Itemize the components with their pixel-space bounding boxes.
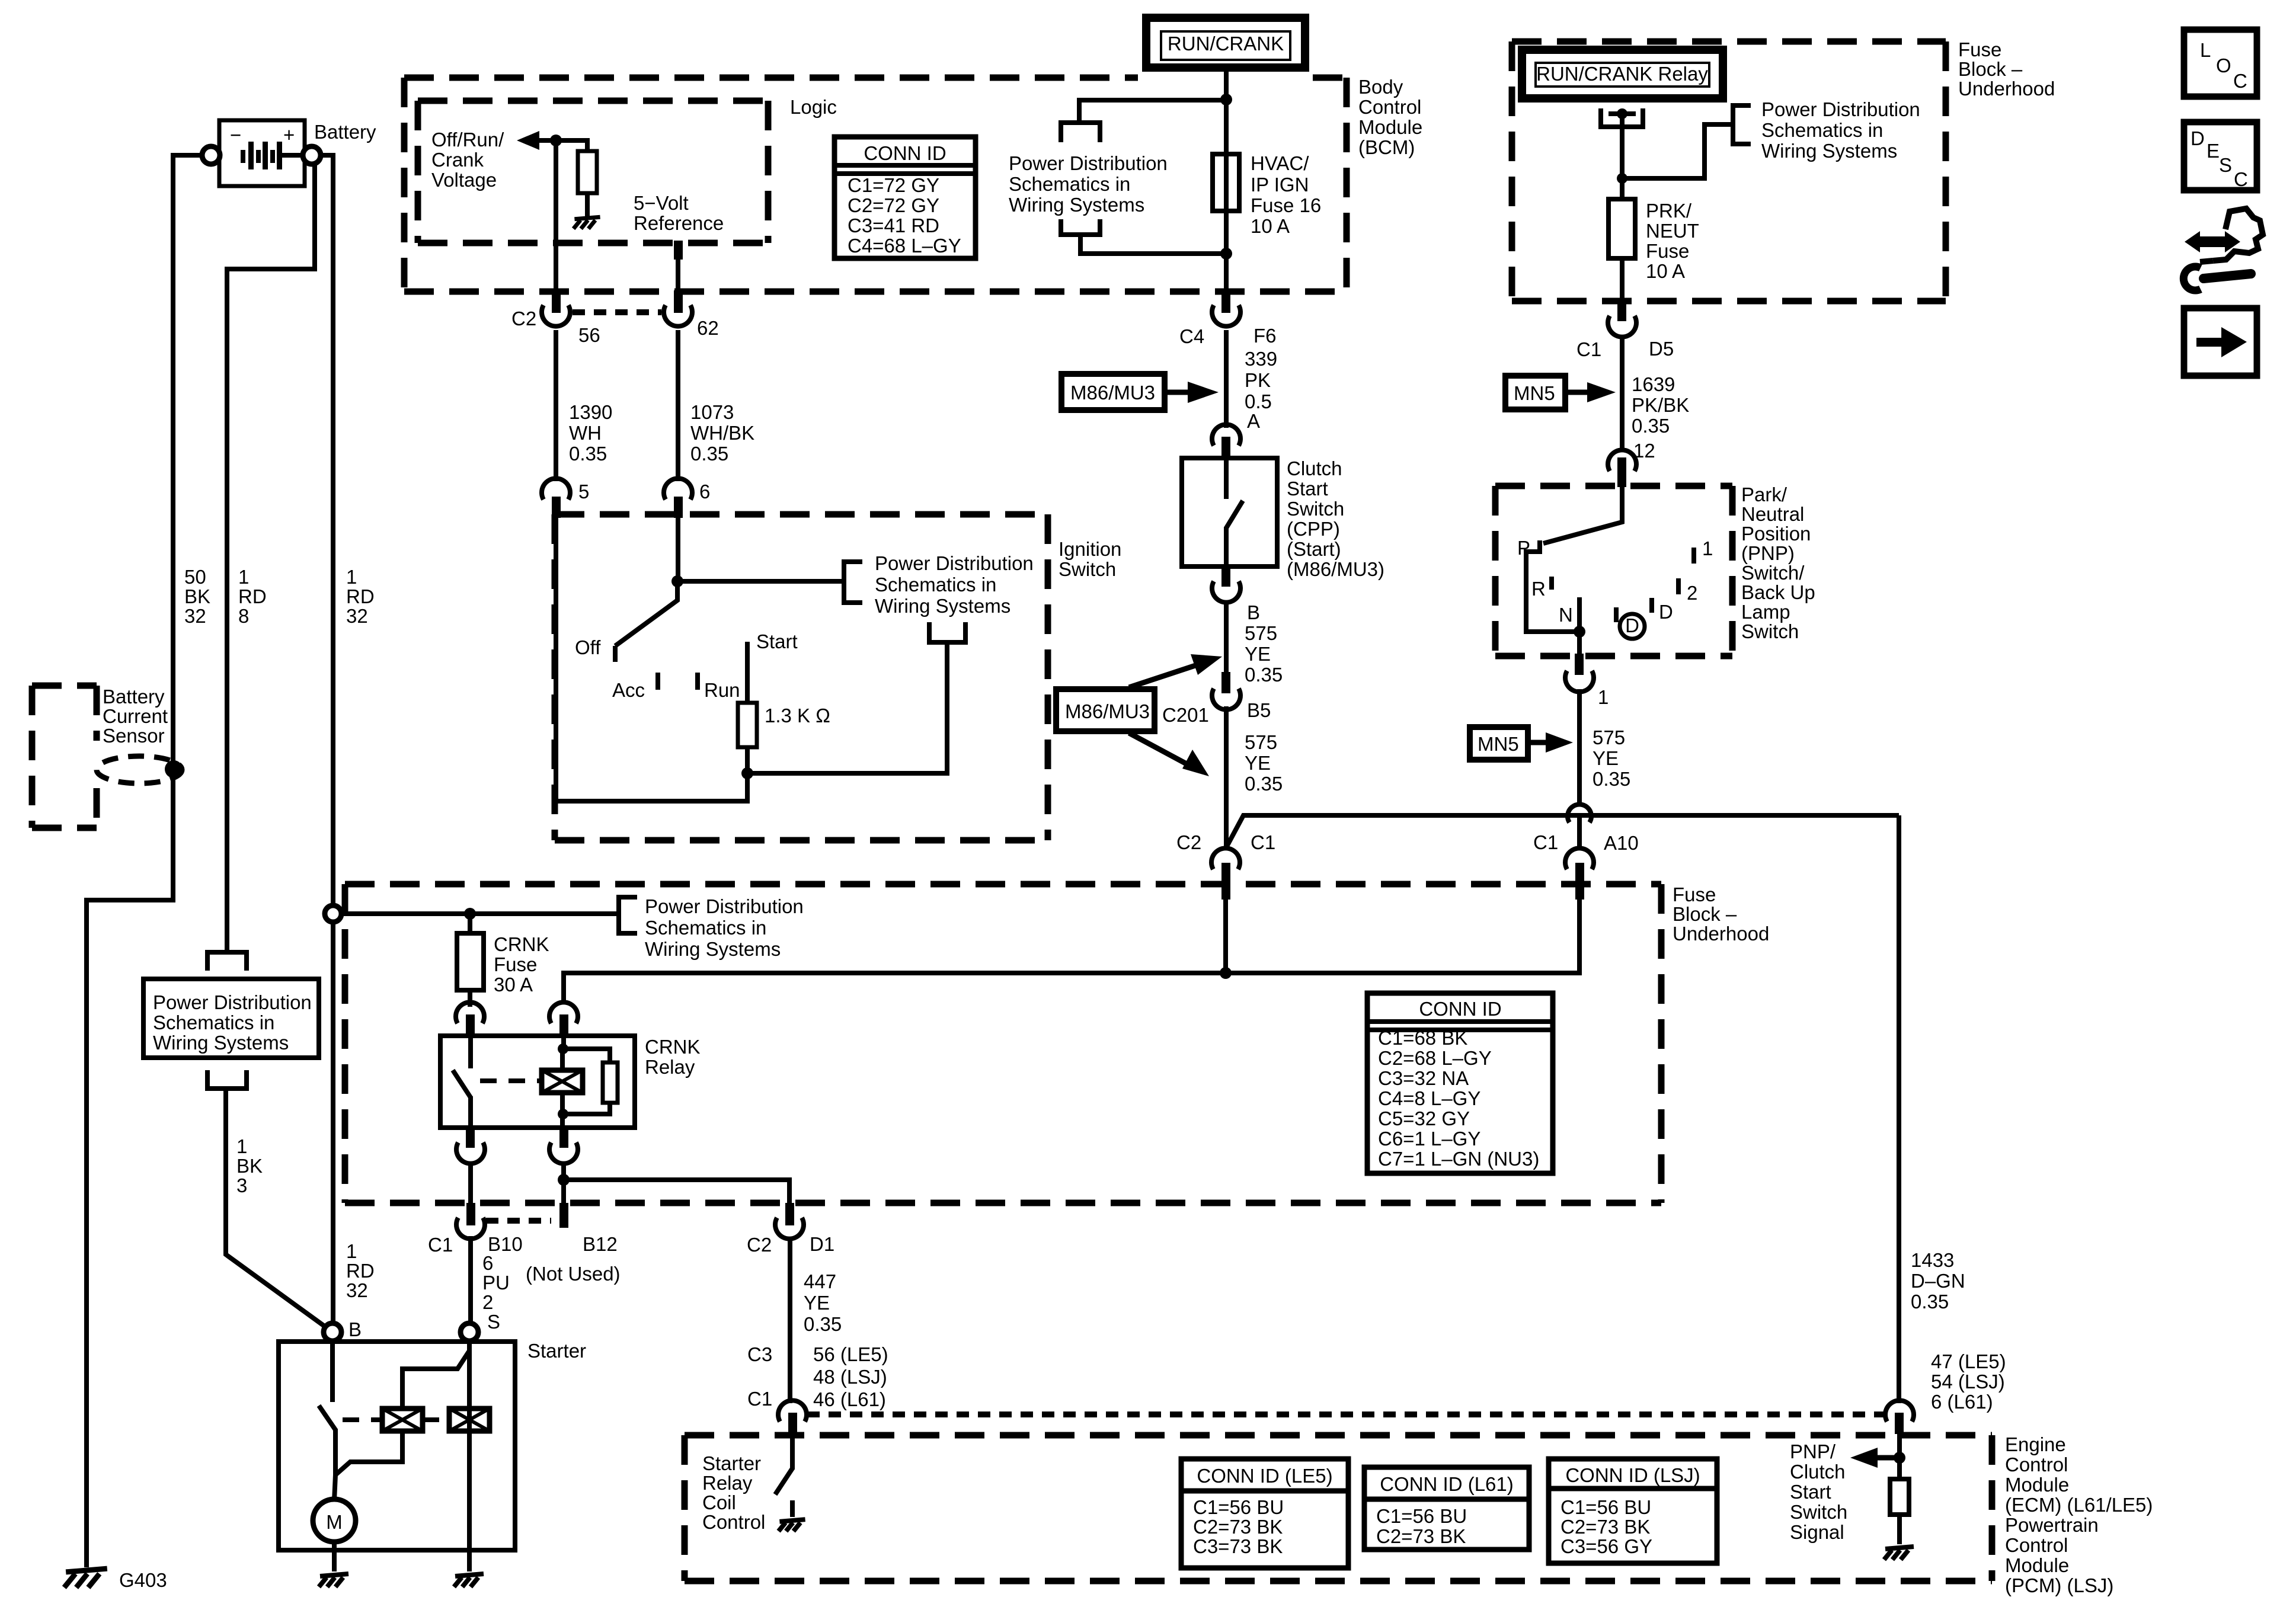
svg-text:10 A: 10 A — [1251, 215, 1290, 237]
svg-text:1: 1 — [236, 1135, 247, 1157]
ground starter solenoid — [454, 1574, 484, 1587]
connector C2 C1 at fuse block — [1176, 831, 1275, 900]
R contact tick — [1549, 577, 1554, 590]
svg-text:C4: C4 — [1179, 325, 1204, 347]
wire 1 BK 3 from box to starter B — [226, 1091, 328, 1329]
svg-text:Block –: Block – — [1958, 58, 2023, 80]
svg-text:IP IGN: IP IGN — [1251, 174, 1309, 196]
arrow PNP signal — [1873, 1455, 1900, 1461]
RUN/CRANK title block — [1146, 18, 1305, 68]
wire battery negative to ground G403 — [87, 155, 202, 1567]
wire battery positive down (1 RD 32) — [321, 155, 333, 1325]
junction dot ignition lower — [741, 767, 753, 779]
svg-text:G403: G403 — [119, 1569, 167, 1591]
svg-text:C1=72 GY: C1=72 GY — [848, 174, 939, 196]
svg-text:32: 32 — [346, 1279, 368, 1301]
connector C2 D1 — [747, 1203, 834, 1256]
relay switch out — [468, 1096, 473, 1128]
svg-text:M86/MU3: M86/MU3 — [1070, 382, 1155, 404]
wire circle to bracket — [341, 911, 619, 916]
svg-text:S: S — [2219, 154, 2232, 176]
svg-text:E: E — [2207, 140, 2220, 162]
CONN ID (LSJ) table — [1549, 1459, 1717, 1563]
svg-text:C1: C1 — [1576, 338, 1601, 360]
svg-text:CRNK: CRNK — [494, 933, 549, 955]
svg-text:C1=56 BU: C1=56 BU — [1193, 1496, 1284, 1518]
svg-text:1433: 1433 — [1911, 1249, 1954, 1271]
svg-text:Schematics in: Schematics in — [875, 574, 996, 596]
pin 2 tick — [1676, 578, 1681, 594]
svg-text:1639: 1639 — [1632, 373, 1675, 395]
svg-text:5−Volt: 5−Volt — [634, 192, 689, 214]
connector pin 6 — [664, 478, 710, 518]
wire resistor to ground — [585, 193, 590, 217]
wire fuse to relay connector — [468, 990, 472, 1007]
ignition wire pin5 down and across — [556, 518, 747, 801]
svg-text:RD: RD — [346, 1260, 375, 1282]
svg-text:Wiring Systems: Wiring Systems — [645, 938, 781, 960]
M86/MU3 box upper — [1061, 374, 1165, 410]
svg-text:56 (LE5): 56 (LE5) — [813, 1343, 888, 1365]
wire bracket lower to junction — [1080, 236, 1226, 254]
svg-text:D: D — [2191, 127, 2205, 149]
svg-text:(Not Used): (Not Used) — [526, 1263, 621, 1285]
arrow M86/MU3 to wire — [1165, 390, 1191, 395]
ground logic — [574, 217, 600, 229]
wire to resistor — [556, 140, 587, 152]
wire A10 down and left to relay — [564, 885, 1579, 1004]
svg-text:C1: C1 — [1251, 831, 1275, 853]
svg-text:C: C — [2233, 70, 2247, 92]
relay resistor — [603, 1062, 618, 1103]
svg-text:48 (LSJ): 48 (LSJ) — [813, 1366, 887, 1388]
svg-text:Power Distribution: Power Distribution — [645, 895, 804, 917]
svg-text:Fuse 16: Fuse 16 — [1251, 194, 1321, 216]
svg-text:Schematics in: Schematics in — [1761, 119, 1883, 141]
arrow M86/MU3 lower-right — [1129, 733, 1185, 763]
PNP switch dashed box — [1495, 486, 1732, 656]
svg-text:D5: D5 — [1649, 338, 1674, 360]
CONN ID (LE5) table — [1181, 1459, 1348, 1568]
svg-text:Start: Start — [756, 630, 798, 652]
diagonal C1 to horizontal wire — [1226, 815, 1899, 849]
Run contact tick — [695, 673, 700, 690]
svg-text:Control: Control — [702, 1511, 765, 1533]
starter coil1 top feed — [402, 1352, 469, 1409]
svg-text:Underhood: Underhood — [1673, 923, 1769, 945]
svg-text:32: 32 — [346, 605, 368, 627]
svg-text:Switch: Switch — [1287, 498, 1344, 520]
svg-text:Fuse: Fuse — [1958, 39, 2001, 60]
starter coil1 join diagonal — [335, 1431, 402, 1475]
junction dot relay pin — [1617, 108, 1627, 119]
junction dot PNP signal — [1894, 1452, 1905, 1464]
svg-text:575: 575 — [1245, 622, 1277, 644]
svg-text:NEUT: NEUT — [1646, 220, 1699, 242]
svg-text:54 (LSJ): 54 (LSJ) — [1931, 1371, 2005, 1393]
CPP wire in — [1224, 458, 1229, 499]
svg-text:1073: 1073 — [690, 401, 734, 423]
resistor logic — [578, 151, 597, 193]
B12 stub nub — [559, 1203, 568, 1228]
svg-text:RUN/CRANK: RUN/CRANK — [1168, 33, 1284, 55]
svg-text:10 A: 10 A — [1646, 260, 1685, 282]
connector 1 below PNP — [1565, 654, 1609, 708]
svg-text:P: P — [1517, 537, 1530, 559]
M86/MU3 box lower — [1056, 689, 1155, 731]
pin 1 tick — [1691, 548, 1696, 564]
logic inner dashed box — [418, 101, 768, 243]
svg-text:Module: Module — [2005, 1474, 2069, 1496]
wire right long vertical to ECM — [1897, 815, 1901, 1403]
connector into relay right — [549, 1002, 578, 1038]
starter B feed — [330, 1341, 335, 1402]
connector 12 into PNP box — [1608, 450, 1636, 487]
svg-text:A: A — [1247, 410, 1260, 432]
svg-text:Power Distribution: Power Distribution — [153, 991, 312, 1013]
svg-text:M: M — [326, 1511, 343, 1533]
svg-text:Engine: Engine — [2005, 1433, 2066, 1455]
wire into ECM — [1897, 1432, 1902, 1480]
junction dot CRNK fuse — [464, 908, 476, 920]
svg-text:Off: Off — [575, 636, 601, 658]
svg-text:Lamp: Lamp — [1741, 601, 1790, 623]
svg-text:C5=32 GY: C5=32 GY — [1378, 1108, 1470, 1129]
bracket power dist right — [1733, 105, 1751, 144]
svg-text:Switch: Switch — [1790, 1501, 1847, 1523]
wire to CRNK fuse — [468, 914, 472, 934]
svg-text:Clutch: Clutch — [1790, 1461, 1846, 1483]
starter box — [279, 1342, 515, 1550]
starter relay coil switch — [790, 1432, 795, 1470]
svg-text:Park/: Park/ — [1741, 484, 1787, 505]
svg-text:Relay: Relay — [702, 1472, 753, 1494]
svg-text:C3=32 NA: C3=32 NA — [1378, 1067, 1469, 1089]
wire left pin down — [468, 1165, 473, 1204]
svg-text:Wiring Systems: Wiring Systems — [875, 595, 1011, 617]
svg-text:Position: Position — [1741, 523, 1811, 545]
svg-text:+: + — [283, 124, 295, 146]
ground G403 — [64, 1569, 107, 1587]
connector body dotted B10 B12 — [486, 1218, 551, 1224]
svg-text:HVAC/: HVAC/ — [1251, 152, 1309, 174]
svg-text:Control: Control — [1358, 96, 1421, 118]
connector C4 F6 — [1179, 290, 1277, 347]
svg-text:N: N — [1559, 604, 1573, 626]
svg-text:C2=73 BK: C2=73 BK — [1560, 1516, 1650, 1538]
svg-text:YE: YE — [1593, 747, 1619, 769]
svg-text:C201: C201 — [1162, 704, 1209, 726]
battery current sensor dashed box — [32, 686, 97, 828]
5-volt reference pin nub — [674, 241, 683, 260]
icon car with arrow and wrench — [2183, 209, 2263, 290]
svg-text:1: 1 — [1702, 537, 1713, 559]
svg-text:447: 447 — [804, 1270, 836, 1292]
wire C2C1 down to junction — [1223, 885, 1228, 973]
svg-text:6: 6 — [699, 481, 710, 502]
svg-text:Control: Control — [2005, 1534, 2068, 1556]
svg-text:PK/BK: PK/BK — [1632, 394, 1689, 416]
svg-text:Powertrain: Powertrain — [2005, 1514, 2099, 1536]
svg-text:RUN/CRANK Relay: RUN/CRANK Relay — [1536, 63, 1708, 85]
svg-text:MN5: MN5 — [1514, 382, 1555, 404]
svg-text:8: 8 — [238, 605, 249, 627]
svg-text:D–GN: D–GN — [1911, 1270, 1965, 1292]
battery current sensor loop (dashed ellipse) — [97, 756, 182, 783]
svg-text:50: 50 — [184, 566, 206, 588]
starter right vertical — [467, 1352, 472, 1550]
wire 5-volt down — [676, 258, 680, 290]
svg-text:C2: C2 — [1176, 831, 1201, 853]
svg-text:(PNP): (PNP) — [1741, 542, 1795, 564]
wire resistor to ground — [1897, 1515, 1902, 1544]
svg-text:BK: BK — [236, 1155, 263, 1177]
svg-text:Switch: Switch — [1741, 620, 1799, 642]
svg-text:M86/MU3: M86/MU3 — [1065, 700, 1150, 722]
svg-text:0.35: 0.35 — [1245, 773, 1283, 795]
svg-text:0.35: 0.35 — [1632, 415, 1670, 437]
svg-text:0.35: 0.35 — [1593, 768, 1630, 790]
fuse block underhood right dashed box — [1512, 41, 1946, 301]
svg-text:Power Distribution: Power Distribution — [1009, 152, 1168, 174]
wire A10 through — [1577, 815, 1582, 849]
starter coil X box 1 — [382, 1409, 423, 1431]
ground ECM — [1884, 1547, 1914, 1560]
wire 1639 PK/BK — [1620, 338, 1625, 452]
svg-text:1: 1 — [1598, 686, 1609, 708]
svg-text:B: B — [1247, 601, 1260, 623]
svg-text:PRK/: PRK/ — [1646, 200, 1692, 222]
svg-text:C3=56 GY: C3=56 GY — [1560, 1535, 1652, 1557]
svg-text:56: 56 — [578, 324, 600, 346]
connector C1 B10 — [428, 1203, 523, 1256]
svg-text:CONN ID: CONN ID — [1419, 998, 1501, 1020]
svg-text:(CPP): (CPP) — [1287, 518, 1340, 540]
svg-text:CRNK: CRNK — [645, 1036, 701, 1058]
svg-text:1: 1 — [346, 1240, 357, 1262]
svg-text:A10: A10 — [1604, 832, 1639, 854]
svg-text:6 (L61): 6 (L61) — [1931, 1391, 1993, 1413]
wire BCM main down — [1224, 100, 1229, 290]
starter actuation dashed — [343, 1417, 382, 1422]
svg-text:RD: RD — [238, 585, 267, 607]
svg-text:5: 5 — [578, 481, 589, 502]
MN5 box lower — [1470, 727, 1528, 760]
junction dot BCM upper — [1220, 94, 1232, 105]
svg-text:0.35: 0.35 — [690, 443, 728, 465]
svg-text:Back Up: Back Up — [1741, 581, 1815, 603]
clutch start switch CPP box — [1182, 458, 1277, 566]
Off contact tick — [613, 646, 618, 662]
svg-text:C4=68 L–GY: C4=68 L–GY — [848, 235, 961, 257]
svg-text:0.35: 0.35 — [1911, 1291, 1949, 1313]
svg-text:Coil: Coil — [702, 1491, 736, 1513]
svg-text:Signal: Signal — [1790, 1521, 1844, 1543]
CPP wire out — [1224, 527, 1229, 566]
svg-text:46 (L61): 46 (L61) — [813, 1388, 886, 1410]
svg-text:Ignition: Ignition — [1059, 538, 1121, 560]
svg-text:Start: Start — [1287, 478, 1328, 500]
wire RUN/CRANK down — [1224, 68, 1229, 100]
svg-text:C1=56 BU: C1=56 BU — [1376, 1505, 1467, 1527]
svg-text:D1: D1 — [810, 1233, 834, 1255]
svg-text:2: 2 — [1687, 582, 1697, 604]
wire 575 YE right — [1577, 689, 1582, 805]
svg-text:62: 62 — [697, 317, 719, 339]
starter switch arm — [319, 1406, 335, 1430]
svg-text:Switch: Switch — [1059, 558, 1116, 580]
svg-text:B: B — [348, 1318, 362, 1340]
svg-text:Switch/: Switch/ — [1741, 562, 1805, 584]
arrow M86/MU3 upper-right — [1129, 665, 1197, 687]
starter solenoid ground wire — [467, 1550, 472, 1571]
starter motor ground wire — [332, 1542, 337, 1571]
CONN ID (L61) table — [1364, 1467, 1529, 1550]
svg-text:Starter: Starter — [702, 1452, 761, 1474]
connector C1 into ECM — [778, 1400, 807, 1434]
svg-text:2: 2 — [482, 1291, 493, 1313]
svg-text:CONN ID: CONN ID — [864, 142, 946, 164]
ground starter motor — [319, 1574, 348, 1587]
ignition wire pin6 to pivot — [676, 518, 680, 581]
ignition switch arm to Off — [615, 581, 677, 646]
svg-text:Power Distribution: Power Distribution — [875, 552, 1034, 574]
CPP switch arm — [1226, 501, 1243, 528]
CRNK relay box — [440, 1036, 635, 1128]
svg-text:575: 575 — [1245, 731, 1277, 753]
svg-text:Schematics in: Schematics in — [1009, 173, 1130, 195]
svg-text:C2=73 BK: C2=73 BK — [1376, 1525, 1466, 1547]
svg-text:−: − — [230, 124, 241, 146]
svg-text:Wiring Systems: Wiring Systems — [1761, 140, 1897, 162]
fuse block underhood central dashed box — [345, 884, 1661, 1203]
svg-text:MN5: MN5 — [1478, 733, 1519, 755]
connector pin 5 — [542, 478, 589, 518]
svg-text:1: 1 — [346, 566, 357, 588]
svg-text:(M86/MU3): (M86/MU3) — [1287, 558, 1384, 580]
junction dot PRK branch — [1617, 173, 1627, 184]
relay actuation dashed — [480, 1078, 539, 1083]
svg-text:B5: B5 — [1247, 699, 1271, 721]
PNP wire in and arm to P — [1543, 486, 1622, 543]
relay coil X box — [542, 1070, 583, 1093]
arrow MN5 lower to wire — [1528, 740, 1549, 745]
svg-text:Battery: Battery — [314, 121, 376, 143]
svg-text:C7=1 L–GN (NU3): C7=1 L–GN (NU3) — [1378, 1148, 1539, 1170]
starter terminal B — [324, 1323, 341, 1341]
svg-text:(ECM) (L61/LE5): (ECM) (L61/LE5) — [2005, 1494, 2153, 1516]
CONN ID table fuse block central — [1367, 993, 1553, 1173]
icon LOC box — [2184, 30, 2257, 97]
svg-text:C3=41 RD: C3=41 RD — [848, 215, 939, 236]
svg-text:30 A: 30 A — [494, 974, 533, 996]
starter S feed — [467, 1341, 472, 1353]
svg-text:1.3 K Ω: 1.3 K Ω — [765, 705, 830, 726]
svg-text:Battery: Battery — [103, 686, 165, 708]
svg-text:CONN ID (LE5): CONN ID (LE5) — [1197, 1465, 1332, 1487]
open circle junction on 1 RD 32 — [325, 905, 341, 922]
svg-text:1: 1 — [238, 566, 249, 588]
svg-text:C: C — [2234, 168, 2248, 190]
connector pin 62 — [664, 290, 719, 339]
ECM dashed box — [685, 1435, 1992, 1581]
svg-text:Current: Current — [103, 705, 168, 727]
wire 6 PU 2 S — [468, 1236, 473, 1321]
wire 1073 WH/BK — [676, 330, 680, 481]
svg-text:C6=1 L–GY: C6=1 L–GY — [1378, 1128, 1480, 1150]
svg-text:PK: PK — [1245, 369, 1271, 391]
svg-text:C1: C1 — [747, 1388, 772, 1410]
junction dot N — [1574, 626, 1585, 638]
svg-text:Logic: Logic — [790, 96, 837, 118]
fuse CRNK 30 A — [457, 933, 484, 990]
svg-text:1390: 1390 — [569, 401, 612, 423]
junction dot BCM lower — [1220, 248, 1232, 260]
relay coil pin bracket — [1601, 108, 1643, 127]
icon arrow box — [2184, 308, 2257, 376]
fuse PRK/NEUT 10 A — [1609, 199, 1635, 258]
power distribution box left (solid) — [143, 979, 319, 1058]
wire 575 YE lower — [1224, 706, 1229, 850]
svg-text:L: L — [2200, 39, 2211, 61]
svg-text:YE: YE — [804, 1292, 830, 1314]
Start wire — [745, 642, 750, 704]
battery positive terminal — [303, 146, 321, 164]
svg-text:0.35: 0.35 — [569, 443, 607, 465]
svg-text:Module: Module — [1358, 116, 1422, 138]
arrow MN5 to wire — [1565, 390, 1591, 395]
svg-text:S: S — [487, 1311, 500, 1333]
svg-text:PNP/: PNP/ — [1790, 1441, 1836, 1462]
svg-text:Clutch: Clutch — [1287, 457, 1342, 479]
connector below relay left — [456, 1125, 485, 1164]
bracket callout ignition upper — [844, 562, 862, 603]
svg-text:0.35: 0.35 — [1245, 664, 1283, 686]
wire to power dist bracket right — [1622, 124, 1732, 178]
svg-text:575: 575 — [1593, 726, 1625, 748]
BCM outer dashed box (Logic) — [404, 78, 1347, 292]
svg-text:O: O — [2216, 55, 2231, 76]
bracket below left power distribution box — [207, 1070, 247, 1089]
svg-text:C2=73 BK: C2=73 BK — [1193, 1516, 1283, 1538]
bracket BCM power dist upper — [1061, 123, 1100, 142]
P contact — [1526, 540, 1579, 632]
svg-text:CONN ID (L61): CONN ID (L61) — [1380, 1473, 1514, 1495]
svg-text:C3: C3 — [747, 1343, 772, 1365]
starter switch out — [334, 1429, 335, 1500]
svg-text:(BCM): (BCM) — [1358, 136, 1415, 158]
relay switch arm — [453, 1070, 471, 1097]
junction dot on fuse block horizontal — [1220, 967, 1232, 979]
wire 339 PK — [1224, 330, 1229, 428]
svg-text:RD: RD — [346, 585, 375, 607]
arrow off/run/crank — [517, 131, 539, 150]
svg-text:Neutral: Neutral — [1741, 503, 1804, 525]
svg-text:Block –: Block – — [1673, 903, 1737, 925]
svg-text:C2=72 GY: C2=72 GY — [848, 194, 939, 216]
svg-text:YE: YE — [1245, 752, 1271, 774]
resistor ECM — [1890, 1479, 1909, 1515]
svg-text:Control: Control — [2005, 1454, 2068, 1475]
svg-text:C1: C1 — [1533, 831, 1558, 853]
svg-text:0.5: 0.5 — [1245, 391, 1272, 412]
svg-text:Power Distribution: Power Distribution — [1761, 98, 1920, 120]
Acc contact tick — [655, 673, 660, 690]
svg-text:Fuse: Fuse — [1646, 240, 1689, 262]
D pin tick — [1649, 598, 1654, 613]
svg-text:339: 339 — [1245, 348, 1277, 370]
svg-text:Starter: Starter — [527, 1340, 586, 1362]
